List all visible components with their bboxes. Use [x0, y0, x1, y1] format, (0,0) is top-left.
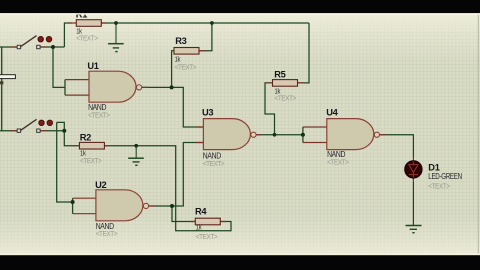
svg-text:U4: U4	[326, 107, 338, 118]
wire U2 feed vertical down to bracket	[57, 122, 73, 202]
pin U4 input stubs	[303, 127, 327, 143]
wire node B down to R2 left pin	[64, 131, 79, 146]
svg-text:<TEXT>: <TEXT>	[203, 159, 225, 168]
wire U4 input bracket	[302, 127, 304, 143]
junction U1 output / R3	[170, 85, 174, 89]
wire U2 input bracket	[72, 198, 74, 214]
resistor R4	[195, 218, 220, 225]
pin U1 input stubs	[65, 80, 89, 96]
svg-text:U1: U1	[87, 61, 99, 72]
pin R5 stubs	[267, 82, 304, 84]
junction node B (SW2/R2/U2)	[62, 129, 66, 133]
svg-text:<TEXT>: <TEXT>	[196, 232, 218, 241]
wire R5 left branch from U3 output node	[265, 83, 275, 135]
window edge line right	[477, 14, 479, 254]
junction U3 output / R5	[273, 133, 277, 137]
svg-text:<TEXT>: <TEXT>	[327, 157, 349, 166]
wire top rail from R1 right pin to R5 drop	[101, 22, 309, 24]
svg-text:<TEXT>: <TEXT>	[275, 94, 297, 103]
pin U2 input stubs	[73, 198, 96, 214]
ground symbol near R2	[128, 146, 144, 166]
wire left-edge vertical joining both switch feeds	[1, 47, 3, 131]
svg-text:R3: R3	[175, 36, 186, 47]
wire switch SW1 input segment	[0, 46, 17, 48]
junction U2 output / R4	[170, 204, 174, 208]
NAND gate U4 body	[327, 119, 380, 150]
pin U3 input stubs	[196, 127, 203, 143]
pin U2 output stub	[149, 205, 155, 207]
wire R5 drop from top rail down and left to R5 right pin	[298, 23, 310, 83]
pin U4 output stub	[380, 134, 386, 136]
LED D1 (LED-GREEN)	[405, 157, 422, 182]
ground symbol below LED D1	[406, 226, 422, 233]
svg-text:R2: R2	[80, 133, 91, 144]
NAND gate U2 body	[96, 190, 149, 221]
wire R3 right branch from top rail	[199, 23, 212, 51]
switch SW2 red state dots	[39, 120, 53, 125]
wire node A up to R1 left pin	[64, 23, 72, 47]
wire U4 output to LED D1 anode	[380, 135, 414, 157]
junction U2 bracket feed	[71, 200, 75, 204]
junction U4 bracket feed	[301, 133, 305, 137]
svg-text:<TEXT>: <TEXT>	[88, 110, 110, 119]
svg-text:U3: U3	[202, 108, 213, 119]
resistor R2	[79, 142, 104, 149]
wire switch SW2 input segment	[0, 130, 17, 132]
resistor R3	[174, 48, 199, 55]
op-amp-style NAND gate U1 body	[89, 71, 142, 102]
wire R3 left pin down to U1 output node	[172, 51, 174, 88]
resistor R5	[273, 80, 298, 87]
ground symbol near R1 (top rail)	[108, 23, 124, 52]
junction ground-R1 on top rail	[114, 21, 118, 25]
switch SW1 red state dots	[38, 37, 52, 42]
svg-text:U2: U2	[95, 180, 106, 191]
svg-text:<TEXT>: <TEXT>	[80, 156, 102, 165]
wire node B jog up-left to U2 feed vertical	[57, 122, 65, 130]
wire U2 output node down to R4 left pin	[172, 206, 195, 222]
NAND gate U3 body	[203, 119, 256, 150]
junction R3 on top rail	[210, 21, 214, 25]
svg-text:R4: R4	[195, 206, 207, 217]
svg-text:<TEXT>: <TEXT>	[76, 34, 98, 43]
letterbox top bar	[0, 0, 480, 13]
bright edge under top bar	[0, 13, 480, 15]
wire U2 output run to U3 lower input	[149, 143, 204, 206]
wire R2 right run to R4 right pin (under R4)	[104, 146, 231, 231]
wire U1 input bracket	[64, 80, 66, 96]
pin R2 stubs	[73, 145, 111, 147]
wire U1 output run to U3 upper input	[142, 87, 204, 127]
pin R4 stubs	[190, 221, 227, 223]
pin U1 output stub	[142, 86, 148, 88]
switch SW2 arm and terminals	[11, 119, 47, 132]
letterbox bottom bar	[0, 255, 480, 270]
wire U3 output run to U4 bracket feed	[256, 134, 303, 136]
wire SW1 output to node A junction	[40, 46, 64, 48]
wire LED D1 cathode down to ground	[412, 182, 414, 225]
svg-text:<TEXT>: <TEXT>	[175, 63, 197, 72]
off-screen logic-state box at left edge	[0, 75, 15, 85]
switch SW1 arm and terminals	[11, 36, 47, 49]
svg-text:<TEXT>: <TEXT>	[96, 229, 118, 238]
wire node A down to U1 input bracket feed	[53, 47, 65, 87]
pin U3 output stub	[256, 134, 262, 136]
junction node A (SW1/U1/R1)	[51, 45, 55, 49]
junction R2/ground	[134, 144, 138, 148]
svg-text:1k: 1k	[196, 223, 202, 232]
pin R3 stubs	[199, 50, 206, 52]
svg-text:R5: R5	[274, 69, 286, 80]
pin R1 stubs	[68, 22, 106, 24]
svg-text:<TEXT>: <TEXT>	[428, 181, 450, 190]
resistor R1	[76, 20, 101, 27]
svg-text:LED-GREEN: LED-GREEN	[428, 172, 462, 181]
bright edge above bottom bar	[0, 253, 480, 255]
wire SW2 output to node B junction	[40, 130, 64, 132]
